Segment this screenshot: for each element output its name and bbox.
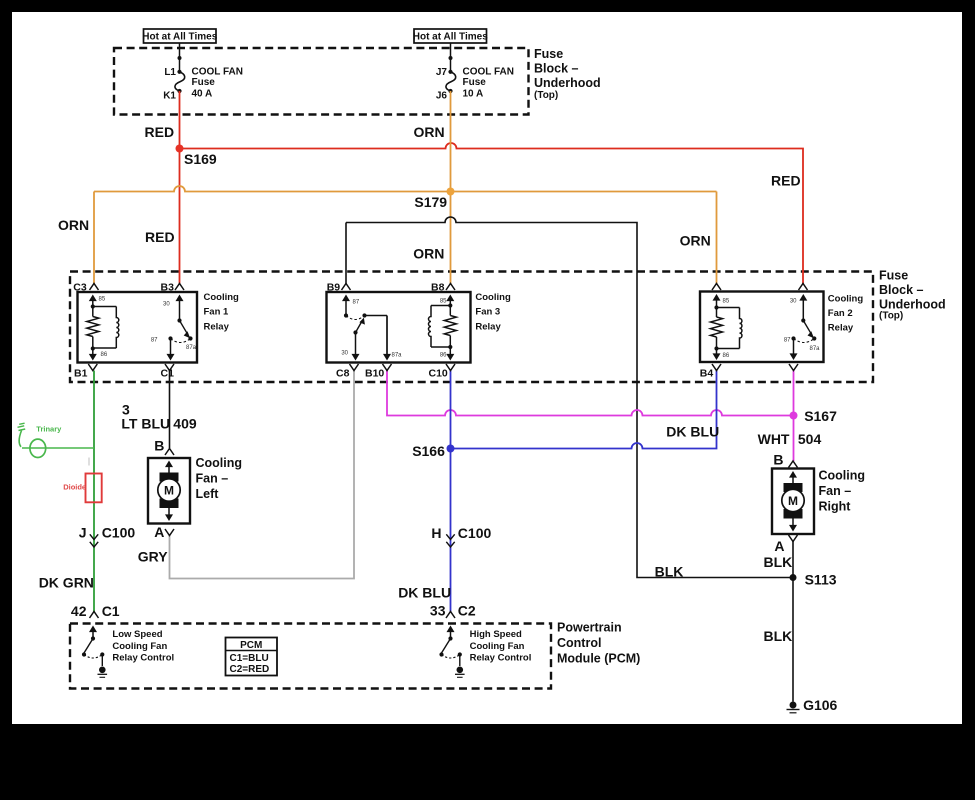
svg-text:Powertrain: Powertrain (557, 620, 622, 634)
svg-text:J6: J6 (436, 91, 448, 102)
svg-text:Cooling: Cooling (196, 456, 243, 470)
svg-text:Low Speed: Low Speed (112, 629, 162, 640)
svg-text:L1: L1 (164, 67, 176, 78)
svg-text:87: 87 (151, 338, 158, 344)
svg-text:B: B (154, 438, 164, 454)
svg-text:RED: RED (145, 124, 175, 140)
svg-text:Dioide: Dioide (63, 482, 86, 491)
svg-text:Relay: Relay (828, 323, 854, 334)
svg-text:Right: Right (819, 499, 852, 513)
svg-text:30: 30 (341, 351, 348, 357)
svg-text:42: 42 (71, 603, 87, 619)
svg-text:C100: C100 (458, 525, 492, 541)
svg-text:S166: S166 (412, 443, 445, 459)
svg-text:Fan –: Fan – (196, 471, 229, 485)
svg-text:Relay Control: Relay Control (112, 653, 174, 664)
svg-text:Relay: Relay (204, 321, 230, 332)
svg-text:504: 504 (798, 431, 822, 447)
svg-text:(Top): (Top) (534, 90, 558, 101)
svg-text:30: 30 (163, 302, 170, 308)
svg-text:COOL FAN: COOL FAN (463, 66, 514, 77)
svg-text:S113: S113 (805, 572, 837, 588)
svg-text:B4: B4 (700, 368, 714, 380)
svg-text:A: A (774, 538, 784, 554)
svg-text:J: J (79, 525, 87, 541)
svg-text:86: 86 (723, 353, 730, 359)
svg-text:ORN: ORN (58, 217, 89, 233)
svg-text:ORN: ORN (413, 246, 444, 262)
svg-text:33: 33 (430, 603, 446, 619)
svg-text:87a: 87a (810, 346, 821, 352)
svg-text:Trinary: Trinary (36, 425, 62, 434)
svg-text:C1: C1 (161, 368, 175, 380)
svg-text:Relay Control: Relay Control (470, 653, 532, 664)
svg-text:BLK: BLK (655, 564, 684, 580)
svg-text:M: M (788, 494, 798, 508)
svg-text:Fan –: Fan – (819, 484, 852, 498)
svg-text:GRY: GRY (138, 549, 168, 565)
svg-text:RED: RED (145, 229, 175, 245)
svg-text:Fuse: Fuse (534, 47, 563, 61)
svg-text:C2: C2 (458, 603, 476, 619)
svg-text:B: B (773, 452, 783, 468)
svg-text:Module (PCM): Module (PCM) (557, 651, 640, 665)
svg-text:B8: B8 (431, 282, 445, 294)
svg-text:87a: 87a (392, 353, 403, 359)
svg-text:C3: C3 (73, 282, 87, 294)
svg-text:Block –: Block – (879, 283, 924, 297)
svg-text:LT BLU: LT BLU (121, 416, 170, 432)
svg-text:S167: S167 (804, 408, 837, 424)
svg-text:K1: K1 (163, 91, 176, 102)
svg-text:G106: G106 (803, 697, 837, 713)
svg-text:S169: S169 (184, 151, 217, 167)
svg-text:DK GRN: DK GRN (39, 575, 94, 591)
svg-text:J7: J7 (436, 67, 448, 78)
svg-text:85: 85 (440, 299, 447, 305)
svg-text:Control: Control (557, 636, 601, 650)
svg-text:409: 409 (173, 416, 197, 432)
svg-text:Hot at All Times: Hot at All Times (142, 32, 217, 43)
svg-text:WHT: WHT (758, 431, 790, 447)
svg-text:87: 87 (784, 338, 791, 344)
svg-text:Hot at All Times: Hot at All Times (413, 32, 488, 43)
svg-text:C100: C100 (102, 525, 136, 541)
svg-text:C1: C1 (102, 603, 120, 619)
svg-text:10 A: 10 A (463, 88, 484, 99)
svg-text:M: M (164, 483, 174, 497)
svg-text:DK BLU: DK BLU (666, 424, 719, 440)
svg-text:Cooling: Cooling (475, 292, 511, 303)
svg-text:DK BLU: DK BLU (398, 585, 451, 601)
svg-text:PCM: PCM (240, 640, 262, 651)
svg-text:B10: B10 (365, 368, 384, 380)
svg-text:Underhood: Underhood (534, 76, 601, 90)
svg-text:S179: S179 (414, 194, 447, 210)
svg-text:(Top): (Top) (879, 311, 903, 322)
svg-text:ORN: ORN (680, 233, 711, 249)
svg-text:BLK: BLK (764, 554, 793, 570)
svg-text:85: 85 (99, 297, 106, 303)
svg-text:Block –: Block – (534, 62, 579, 76)
svg-text:A: A (154, 524, 164, 540)
svg-text:Left: Left (196, 487, 220, 501)
svg-text:Cooling: Cooling (819, 468, 866, 482)
svg-text:86: 86 (440, 353, 447, 359)
svg-text:Cooling Fan: Cooling Fan (112, 641, 167, 652)
svg-text:87a: 87a (186, 345, 197, 351)
svg-text:30: 30 (790, 299, 797, 305)
svg-text:Fan 3: Fan 3 (475, 307, 500, 318)
svg-text:ORN: ORN (414, 124, 445, 140)
svg-text:Fuse: Fuse (192, 77, 216, 88)
svg-text:C10: C10 (429, 368, 448, 380)
svg-text:Fan 1: Fan 1 (204, 307, 230, 318)
svg-text:High Speed: High Speed (470, 629, 522, 640)
svg-text:C8: C8 (336, 368, 350, 380)
svg-text:C1=BLU: C1=BLU (230, 653, 269, 664)
svg-text:B3: B3 (161, 282, 175, 294)
svg-text:RED: RED (771, 173, 801, 189)
svg-text:C2=RED: C2=RED (230, 664, 270, 675)
svg-text:H: H (431, 525, 441, 541)
svg-text:Fuse: Fuse (463, 77, 487, 88)
svg-text:COOL FAN: COOL FAN (192, 66, 243, 77)
svg-text:40 A: 40 A (192, 88, 213, 99)
svg-text:B1: B1 (74, 368, 88, 380)
svg-text:Relay: Relay (475, 321, 501, 332)
svg-text:Cooling: Cooling (828, 294, 864, 305)
svg-text:B9: B9 (327, 282, 341, 294)
svg-text:86: 86 (101, 352, 108, 358)
svg-text:Fan 2: Fan 2 (828, 308, 853, 319)
svg-text:85: 85 (723, 299, 730, 305)
svg-text:87: 87 (353, 300, 360, 306)
svg-text:Fuse: Fuse (879, 268, 908, 282)
svg-text:Underhood: Underhood (879, 298, 946, 312)
svg-text:Cooling: Cooling (204, 292, 240, 303)
svg-text:Cooling Fan: Cooling Fan (470, 641, 525, 652)
svg-text:BLK: BLK (764, 628, 793, 644)
